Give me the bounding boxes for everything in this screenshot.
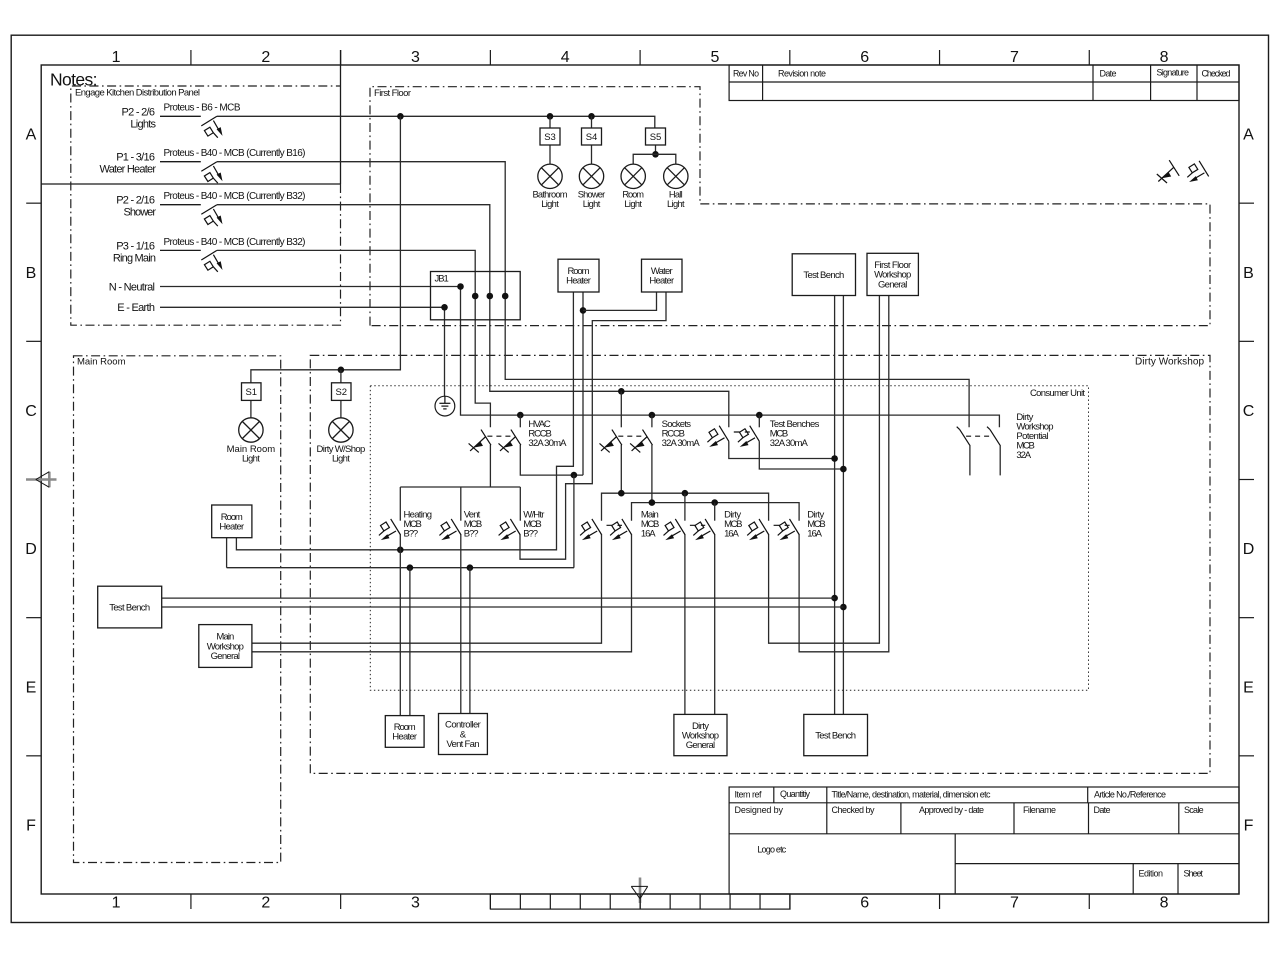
svg-text:Article No./Reference: Article No./Reference xyxy=(1094,790,1166,800)
svg-text:D: D xyxy=(25,541,37,558)
svg-text:Rev No: Rev No xyxy=(733,68,759,78)
svg-text:1: 1 xyxy=(112,894,121,911)
svg-text:5: 5 xyxy=(711,49,720,66)
svg-text:16A: 16A xyxy=(807,528,822,539)
svg-text:D: D xyxy=(1243,541,1255,558)
svg-text:Edition: Edition xyxy=(1139,869,1164,879)
svg-text:P2 - 2/6: P2 - 2/6 xyxy=(122,106,156,118)
svg-text:C: C xyxy=(1243,403,1255,420)
svg-text:F: F xyxy=(1244,817,1254,834)
svg-text:6: 6 xyxy=(860,894,869,911)
svg-text:B: B xyxy=(26,265,37,282)
svg-text:16A: 16A xyxy=(724,528,739,539)
svg-text:Checked by: Checked by xyxy=(832,805,876,815)
svg-text:Sheet: Sheet xyxy=(1184,869,1204,879)
svg-text:Light: Light xyxy=(541,199,559,209)
svg-text:Checked: Checked xyxy=(1202,68,1231,78)
svg-text:7: 7 xyxy=(1010,894,1019,911)
svg-text:A: A xyxy=(26,127,37,144)
svg-text:Lights: Lights xyxy=(130,118,156,130)
svg-text:32A 30mA: 32A 30mA xyxy=(528,438,567,449)
svg-text:32A: 32A xyxy=(1016,450,1031,461)
svg-text:32A 30mA: 32A 30mA xyxy=(770,438,809,449)
svg-text:Consumer Unit: Consumer Unit xyxy=(1030,388,1085,399)
svg-text:B??: B?? xyxy=(523,528,538,539)
svg-text:E: E xyxy=(1243,679,1254,696)
svg-text:Water Heater: Water Heater xyxy=(100,164,157,176)
svg-text:Test Bench: Test Bench xyxy=(109,602,150,613)
svg-text:Title/Name, destination, mater: Title/Name, destination, material, dimen… xyxy=(832,790,992,800)
svg-text:Vent Fan: Vent Fan xyxy=(446,739,479,750)
svg-text:Revision note: Revision note xyxy=(778,68,826,78)
svg-text:Heater: Heater xyxy=(566,276,591,287)
svg-text:JB1: JB1 xyxy=(435,274,449,285)
svg-text:B??: B?? xyxy=(404,528,419,539)
svg-text:S4: S4 xyxy=(586,132,598,143)
svg-text:7: 7 xyxy=(1010,49,1019,66)
svg-text:B??: B?? xyxy=(464,528,479,539)
svg-text:16A: 16A xyxy=(641,528,656,539)
svg-text:S1: S1 xyxy=(245,387,257,398)
svg-text:A: A xyxy=(1243,127,1254,144)
svg-text:Proteus - B40 - MCB (Currently: Proteus - B40 - MCB (Currently B16) xyxy=(164,148,306,159)
svg-text:Proteus - B40 - MCB (Currently: Proteus - B40 - MCB (Currently B32) xyxy=(164,191,306,202)
svg-text:Light: Light xyxy=(624,199,642,209)
svg-text:P1 - 3/16: P1 - 3/16 xyxy=(116,152,155,164)
svg-text:P2 - 2/16: P2 - 2/16 xyxy=(116,195,155,207)
svg-text:Approved by - date: Approved by - date xyxy=(919,805,984,815)
svg-text:Date: Date xyxy=(1100,68,1117,78)
svg-text:3: 3 xyxy=(411,894,420,911)
svg-text:2: 2 xyxy=(261,894,270,911)
svg-text:Light: Light xyxy=(332,453,350,464)
svg-text:S5: S5 xyxy=(650,132,662,143)
svg-text:Signature: Signature xyxy=(1157,67,1190,77)
svg-text:Heater: Heater xyxy=(392,732,417,743)
svg-text:Light: Light xyxy=(667,199,685,209)
svg-text:General: General xyxy=(686,740,715,751)
svg-text:8: 8 xyxy=(1160,49,1169,66)
svg-text:2: 2 xyxy=(261,49,270,66)
svg-text:Proteus - B40 - MCB (Currently: Proteus - B40 - MCB (Currently B32) xyxy=(164,237,306,248)
svg-text:4: 4 xyxy=(561,49,570,66)
svg-text:Light: Light xyxy=(583,199,601,209)
svg-text:Light: Light xyxy=(242,453,260,464)
svg-text:Main Room: Main Room xyxy=(77,356,126,367)
svg-text:E: E xyxy=(26,679,37,696)
svg-text:6: 6 xyxy=(860,49,869,66)
svg-text:S2: S2 xyxy=(335,387,347,398)
svg-text:Shower: Shower xyxy=(124,207,157,219)
svg-text:Filename: Filename xyxy=(1023,805,1056,815)
svg-text:E - Earth: E - Earth xyxy=(117,302,155,314)
svg-text:Test Bench: Test Bench xyxy=(815,730,856,741)
svg-text:32A 30mA: 32A 30mA xyxy=(662,438,701,449)
svg-text:General: General xyxy=(211,651,240,662)
svg-text:Ring Main: Ring Main xyxy=(113,252,156,264)
svg-text:Item ref: Item ref xyxy=(735,790,762,800)
svg-text:Date: Date xyxy=(1094,805,1111,815)
svg-text:C: C xyxy=(25,403,37,420)
svg-text:First Floor: First Floor xyxy=(374,88,411,99)
svg-text:Proteus - B6 - MCB: Proteus - B6 - MCB xyxy=(164,103,241,114)
svg-text:General: General xyxy=(878,279,907,290)
svg-text:1: 1 xyxy=(112,49,121,66)
svg-text:B: B xyxy=(1243,265,1254,282)
svg-text:3: 3 xyxy=(411,49,420,66)
svg-text:Test Bench: Test Bench xyxy=(803,270,844,281)
svg-text:Engage Kitchen Distribution Pa: Engage Kitchen Distribution Panel xyxy=(75,88,200,99)
svg-text:Designed by: Designed by xyxy=(735,805,784,815)
svg-text:Logo etc: Logo etc xyxy=(757,845,787,855)
svg-text:P3 - 1/16: P3 - 1/16 xyxy=(116,240,155,252)
svg-text:N - Neutral: N - Neutral xyxy=(109,281,155,293)
svg-text:F: F xyxy=(26,817,36,834)
svg-text:S3: S3 xyxy=(544,132,556,143)
svg-text:Scale: Scale xyxy=(1184,805,1204,815)
svg-text:Heater: Heater xyxy=(219,521,244,532)
svg-text:Quantitiy: Quantitiy xyxy=(780,789,811,799)
svg-text:Heater: Heater xyxy=(649,276,674,287)
svg-text:8: 8 xyxy=(1160,894,1169,911)
svg-text:Dirty Workshop: Dirty Workshop xyxy=(1135,357,1204,368)
